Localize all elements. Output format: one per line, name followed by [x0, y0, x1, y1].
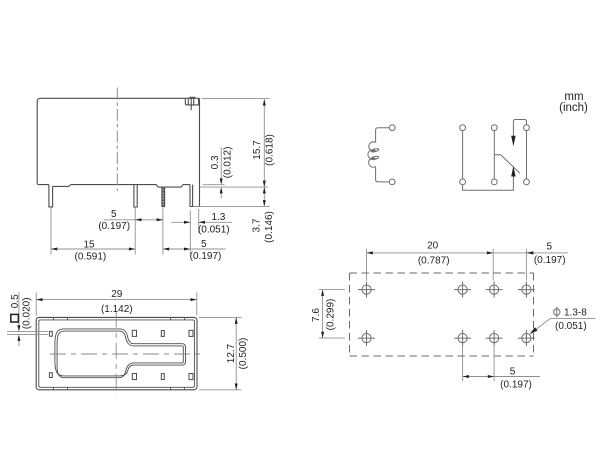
wire coil bottom lead	[376, 167, 390, 182]
arrow 20 dim left	[367, 251, 373, 254]
wire NO arrow to NC bottom	[463, 176, 514, 190]
leader line to hole	[533, 318, 551, 331]
7.6 dim line	[322, 290, 324, 339]
extension line pin3 center	[162, 208, 164, 255]
svg-text:(0.197): (0.197)	[500, 380, 532, 391]
svg-text:(0.197): (0.197)	[190, 251, 222, 262]
svg-text:(0.787): (0.787)	[418, 255, 450, 266]
svg-text:1.3-8: 1.3-8	[564, 308, 587, 319]
contact terminal COM bottom	[491, 179, 497, 185]
coil L1 winding	[368, 142, 376, 167]
svg-text:29: 29	[111, 289, 123, 300]
arrow 1.3 dim left	[184, 221, 190, 224]
pin slot 2 top row	[132, 330, 136, 336]
center dashed line of side view	[116, 88, 118, 192]
arrow 15 dim right	[129, 248, 135, 251]
arrow 0.3 dim lower	[220, 187, 223, 193]
extension line hole row bottom	[319, 337, 345, 339]
case outline dashed top edge	[350, 272, 534, 274]
inner case rect	[39, 320, 195, 387]
3.7 dim line	[263, 187, 265, 206]
wire NO top loop	[513, 120, 526, 137]
contact terminal COM top	[491, 125, 497, 131]
pin 4 (wide 1.3mm pin at right)	[190, 185, 200, 207]
extension line hole 4	[525, 249, 527, 281]
pin 3 hatch lines	[162, 188, 165, 206]
coil terminal bottom	[389, 179, 395, 185]
leader arrowhead	[530, 327, 538, 334]
arrow 5 mid dim right	[157, 218, 163, 221]
1.3 dim line right tail	[199, 221, 232, 223]
svg-text:(inch): (inch)	[559, 102, 588, 114]
contact terminal NO bottom	[524, 179, 530, 185]
diameter symbol	[554, 309, 560, 315]
svg-text:(0.012): (0.012)	[223, 147, 234, 179]
arrow 15.7 dim bottom	[263, 181, 266, 187]
arrow 1.3 dim right	[199, 221, 205, 224]
extension line slot bottom edge	[7, 334, 48, 336]
5 right dim line with right tail	[163, 248, 226, 250]
extension line case bottom edge	[199, 389, 242, 391]
square symbol of square-pin callout	[11, 314, 19, 322]
arrow 12.7 dim bottom	[235, 384, 238, 390]
edge tab ticks bottom	[53, 387, 55, 390]
15.7 dim line	[263, 99, 265, 187]
contact terminal NC top	[460, 125, 466, 131]
pin slot 2 bottom row	[132, 374, 136, 380]
svg-text:(0.197): (0.197)	[534, 255, 566, 266]
relay body outline	[37, 98, 199, 184]
29 dim line	[36, 299, 197, 301]
svg-text:5: 5	[111, 209, 117, 220]
5 mid dim line with left tail	[104, 219, 163, 221]
contact terminal NC bottom	[460, 179, 466, 185]
pin slot 4 top row	[189, 330, 193, 336]
pin slot 4 bottom row	[189, 374, 193, 380]
svg-text:1.3: 1.3	[211, 212, 225, 223]
callout underline	[551, 317, 596, 319]
horizontal centerline bottom view	[50, 353, 204, 355]
0.3 dim upper stem	[220, 147, 222, 183]
svg-text:0.3: 0.3	[210, 155, 221, 169]
bottom 5 dim line	[463, 376, 540, 378]
arrow 7.6 dim top	[321, 290, 324, 296]
arrow actuation down	[511, 136, 515, 147]
arrow 5 mid dim left	[135, 218, 141, 221]
extension line pin4 left edge	[189, 211, 191, 255]
arrow 29 dim right	[191, 298, 197, 301]
extension line body top edge	[202, 97, 270, 99]
drilling holes pattern	[358, 282, 535, 347]
pin 3 (hatched coil pin)	[162, 187, 165, 206]
extension line case right edge	[196, 293, 198, 316]
svg-text:3.7: 3.7	[252, 218, 263, 232]
svg-text:mm: mm	[564, 91, 583, 103]
svg-text:15.7: 15.7	[252, 140, 263, 160]
pin 1 (left, hollow)	[49, 185, 53, 207]
extension line hole 2 bottom	[462, 346, 464, 382]
extension line hole 1	[366, 249, 368, 281]
extension line pin4 right edge	[198, 209, 200, 233]
arrow 12.7 dim top	[235, 317, 238, 323]
contact terminal NO top	[524, 125, 530, 131]
svg-text:(1.142): (1.142)	[101, 304, 133, 315]
wire NO pole	[526, 131, 528, 179]
arrow actuation up	[511, 166, 515, 177]
key-shaped inner outline (outer contour)	[55, 329, 186, 378]
arrow 15 dim left	[51, 248, 57, 251]
svg-text:(0.299): (0.299)	[326, 299, 337, 331]
pin slot 3 bottom row	[161, 374, 164, 380]
extension line slot top edge	[7, 331, 48, 333]
top vent detail	[185, 98, 198, 105]
1.3 dim line left tail	[172, 221, 191, 223]
arrow 29 dim left	[36, 298, 42, 301]
arrow bottom 5 dim right	[488, 375, 494, 378]
hole 1 bottom row	[358, 330, 375, 346]
arrow 3.7 dim bottom	[263, 200, 266, 206]
svg-text:20: 20	[427, 241, 439, 252]
svg-text:(0.591): (0.591)	[75, 251, 107, 262]
vertical centerline bottom view	[115, 312, 117, 396]
0.5 dim lower stem	[18, 337, 20, 346]
extension line pin2 center	[134, 208, 136, 255]
hole 2 bottom row	[454, 330, 471, 346]
side view dimensions	[51, 98, 270, 254]
svg-text:15: 15	[83, 240, 95, 251]
arrow 5 dim right	[526, 251, 533, 254]
hole 3 top row	[486, 282, 503, 298]
svg-text:(0.146): (0.146)	[264, 211, 275, 243]
hole 3 bottom row	[486, 330, 503, 346]
coil terminal top	[389, 125, 395, 131]
svg-text:(0.051): (0.051)	[198, 224, 230, 235]
extension line hole 3	[492, 249, 494, 281]
hole 1 top row	[358, 282, 375, 298]
arrow 5 right dim right	[184, 248, 190, 251]
arrow 15.7 dim top	[263, 99, 266, 105]
extension line seating plane	[200, 186, 268, 188]
svg-text:5: 5	[201, 239, 207, 250]
extension line hole 3 bottom	[493, 346, 495, 382]
extension line pin1 center	[50, 208, 52, 255]
edge tab ticks top	[53, 317, 55, 320]
svg-text:5: 5	[510, 366, 516, 377]
arrow 7.6 dim bottom	[321, 332, 324, 338]
case outline dashed bottom edge	[350, 355, 534, 357]
arrow bottom 5 dim left	[463, 375, 469, 378]
arrow 20 dim right / 5 dim left	[487, 251, 493, 254]
hole 4 bottom row	[518, 330, 535, 346]
arrow 0.5 dim lower	[17, 335, 20, 341]
0.5 dim upper stem	[18, 292, 20, 329]
hole 4 top row	[518, 282, 535, 298]
pin slot 3 top row	[161, 331, 164, 337]
pin slot 1 bottom row	[49, 373, 52, 378]
case outline dashed left edge	[349, 273, 351, 356]
extension line hole row top	[319, 289, 345, 291]
svg-text:(0.618): (0.618)	[264, 134, 275, 166]
extension line body bottom edge	[203, 184, 225, 186]
svg-text:(0.500): (0.500)	[238, 338, 249, 370]
extension line case left edge	[35, 293, 37, 316]
wire NC pole	[462, 131, 464, 179]
hole 2 top row	[454, 282, 471, 298]
arrow 5 right dim left	[163, 248, 169, 251]
svg-text:(0.051): (0.051)	[555, 321, 587, 332]
pin 2 (hollow)	[134, 185, 137, 207]
0.3 dim lower stem	[220, 189, 222, 198]
svg-text:(0.020): (0.020)	[21, 297, 32, 329]
svg-text:12.7: 12.7	[226, 343, 237, 363]
svg-text:0.5: 0.5	[10, 294, 21, 308]
extension line pin tip plane	[193, 205, 270, 207]
arrow 3.7 dim top	[263, 187, 266, 193]
outer case rect	[36, 317, 197, 389]
pin slot 1 top row	[49, 331, 52, 336]
svg-text:7.6: 7.6	[311, 308, 322, 322]
case outline dashed right edge	[533, 273, 535, 356]
switch blade (moving contact)	[494, 155, 520, 173]
extension line case top edge	[199, 316, 242, 318]
12.7 dim line	[235, 317, 237, 389]
15 dim line	[51, 248, 135, 250]
wire COM pole	[493, 131, 495, 179]
svg-text:5: 5	[547, 242, 553, 253]
svg-text:(0.197): (0.197)	[98, 221, 130, 232]
arrow 0.5 dim upper	[17, 325, 20, 331]
20 and 5 dim line	[367, 252, 569, 254]
wire coil top lead	[376, 128, 390, 143]
arrow 0.3 dim upper	[220, 178, 223, 184]
